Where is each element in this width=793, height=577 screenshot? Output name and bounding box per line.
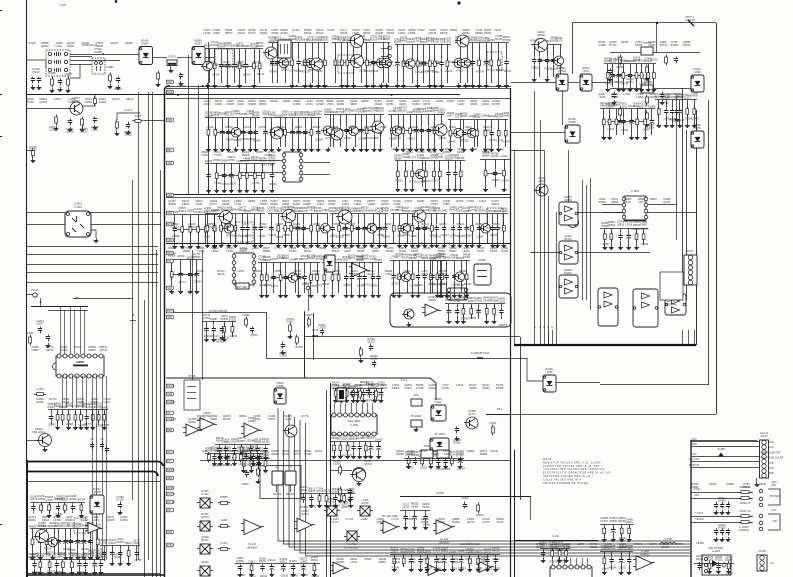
wire d220 drop <box>562 91 564 125</box>
svg-text:C3955: C3955 <box>242 314 250 317</box>
box C1413 <box>278 40 291 58</box>
svg-text:C7029: C7029 <box>425 567 433 570</box>
svg-text:PHO: PHO <box>167 544 172 547</box>
svg-text:L4515: L4515 <box>462 497 470 500</box>
svg-text:D3317: D3317 <box>262 438 270 441</box>
wire u601 drop 0 <box>92 376 94 560</box>
svg-text:D6802: D6802 <box>370 358 378 361</box>
x-filter X7 <box>347 531 357 541</box>
svg-text:R4271: R4271 <box>38 525 46 528</box>
svg-text:Q4060: Q4060 <box>434 568 442 571</box>
svg-text:D2983: D2983 <box>646 82 654 85</box>
svg-text:R5040: R5040 <box>270 70 278 73</box>
tab PHO545 <box>167 543 174 547</box>
svg-text:D5636: D5636 <box>257 207 265 210</box>
svg-text:L1317: L1317 <box>583 70 591 73</box>
resistor R303 <box>646 65 648 76</box>
wire drop 540 <box>540 330 542 345</box>
ic U601 big DIP <box>56 356 104 376</box>
wire midbot border2 <box>326 390 328 577</box>
svg-text:D7333: D7333 <box>254 441 262 444</box>
wire feeder 193b <box>192 250 194 380</box>
svg-text:C1808: C1808 <box>436 492 444 495</box>
wire left margin lower <box>27 460 29 577</box>
wire rb h150 <box>511 150 544 152</box>
svg-text:R8685: R8685 <box>220 496 228 499</box>
svg-text:C7142: C7142 <box>201 493 209 496</box>
svg-text:R1815: R1815 <box>445 299 453 302</box>
svg-text:Q1939: Q1939 <box>492 547 500 550</box>
wire box mid vert a <box>266 312 268 358</box>
svg-text:TAB: TAB <box>167 119 172 122</box>
tab SDC478 <box>167 476 174 480</box>
svg-text:ATB: ATB <box>414 394 419 397</box>
svg-text:R8135: R8135 <box>669 119 677 122</box>
node top mark C <box>457 1 460 4</box>
transistor Q203 <box>351 35 364 48</box>
svg-text:R2169: R2169 <box>383 236 391 239</box>
svg-text:L5097: L5097 <box>282 254 290 257</box>
ic U402 DIP <box>234 253 254 285</box>
svg-text:AV: AV <box>167 412 170 415</box>
svg-text:SDC: SDC <box>167 477 172 480</box>
svg-text:R5708: R5708 <box>491 153 499 156</box>
svg-text:Q3749: Q3749 <box>621 83 629 86</box>
wire bl thin 481 <box>26 481 160 483</box>
svg-text:R5000: R5000 <box>193 256 201 259</box>
ic U502 <box>624 196 646 220</box>
wire hline 378 <box>166 378 436 400</box>
wire top-right drop <box>572 23 574 74</box>
stage top band 2 <box>268 42 328 44</box>
wire rb vert 544 <box>544 150 546 330</box>
wire Q101 base <box>26 108 70 110</box>
tab TAB82 <box>167 80 174 84</box>
stage mid 1 <box>170 214 218 216</box>
svg-text:A-1571: A-1571 <box>36 388 45 391</box>
svg-text:D3042: D3042 <box>108 542 116 545</box>
wire right verticals 677 <box>676 95 678 240</box>
svg-text:PB.TB: PB.TB <box>167 310 175 313</box>
transistor Q601 <box>39 434 52 447</box>
svg-text:Q7930: Q7930 <box>503 39 511 42</box>
stage U502 area <box>600 228 648 230</box>
svg-text:D5678: D5678 <box>476 514 484 517</box>
svg-text:D7873: D7873 <box>168 56 176 59</box>
svg-text:C1488: C1488 <box>94 51 102 54</box>
diode D303 <box>688 20 694 26</box>
svg-text:Q6873: Q6873 <box>178 281 186 284</box>
stage mid low 4 <box>430 260 470 262</box>
wire drop r694 <box>694 330 696 345</box>
svg-text:C 1001: C 1001 <box>74 206 83 209</box>
svg-text:L6355: L6355 <box>648 106 656 109</box>
svg-text:HARMONY CTL: HARMONY CTL <box>631 228 650 231</box>
wire mid verticals 313 <box>313 313 315 360</box>
svg-text:Q4777: Q4777 <box>239 207 247 210</box>
svg-text:C3902: C3902 <box>345 455 353 458</box>
stage bl4 <box>30 559 105 561</box>
svg-text:R8770: R8770 <box>84 423 92 426</box>
svg-text:R7566: R7566 <box>295 346 303 349</box>
svg-text:Q1470: Q1470 <box>692 118 700 121</box>
wire bus v4 <box>152 92 154 577</box>
node P101 <box>33 293 37 297</box>
svg-text:Q8428: Q8428 <box>212 73 220 76</box>
stage top band 5 <box>455 42 509 44</box>
resistor R104 <box>68 77 70 88</box>
x-filter X5 <box>327 506 337 516</box>
wire conn w1 <box>691 456 759 458</box>
diode block D801 <box>543 375 556 392</box>
capacitor C903 <box>456 427 458 430</box>
transistor Q901 <box>353 468 366 481</box>
stage top band 4 <box>395 44 451 46</box>
wire dip feeds top <box>31 306 88 308</box>
svg-text:D6053: D6053 <box>469 317 477 320</box>
transistor Q903 <box>466 417 478 429</box>
wire left block out 2 <box>90 224 161 226</box>
svg-text:C1821: C1821 <box>248 560 256 563</box>
svg-text:C 1501: C 1501 <box>631 190 640 193</box>
stage mid 4 <box>330 213 388 215</box>
svg-text:D4538: D4538 <box>463 253 471 256</box>
svg-text:HAF003: HAF003 <box>640 553 650 556</box>
resistor RJ3 <box>739 516 752 518</box>
svg-text:R8988: R8988 <box>172 235 180 238</box>
svg-text:Q4467: Q4467 <box>642 129 650 132</box>
wire right verticals 682 <box>682 88 684 300</box>
stage band2 4 <box>388 114 444 116</box>
stage topright <box>531 44 562 46</box>
box FL301 <box>641 47 653 55</box>
wire M column <box>568 150 570 202</box>
box R-array <box>337 388 346 401</box>
svg-text:D9307: D9307 <box>333 463 341 466</box>
svg-text:S-CND 2HPSHA: S-CND 2HPSHA <box>209 310 228 313</box>
svg-text:BASS: BASS <box>167 487 174 490</box>
tab TAB163 <box>167 161 174 165</box>
svg-text:L2293: L2293 <box>450 567 458 570</box>
svg-text:D3024: D3024 <box>356 259 364 262</box>
svg-text:R9279: R9279 <box>114 88 122 91</box>
svg-text:R8564: R8564 <box>633 102 641 105</box>
svg-text:RC-SE: RC-SE <box>167 501 175 504</box>
svg-text:D7126: D7126 <box>116 499 124 502</box>
stage top band 3 <box>332 42 390 44</box>
stage bot strip <box>235 563 320 565</box>
wire rail y460 <box>200 460 510 462</box>
svg-text:L3956: L3956 <box>458 550 466 553</box>
stage b3b <box>400 510 430 512</box>
svg-text:D1920: D1920 <box>375 438 383 441</box>
wire thick left A <box>27 461 163 466</box>
wire tl links <box>70 56 92 58</box>
svg-text:Q5012: Q5012 <box>32 71 40 74</box>
svg-text:D2680: D2680 <box>100 539 108 542</box>
op-amp U403 <box>352 263 367 277</box>
svg-text:L3369: L3369 <box>243 160 251 163</box>
svg-text:L4997: L4997 <box>503 140 511 143</box>
svg-text:Q1916: Q1916 <box>243 73 251 76</box>
resistor R302 <box>666 55 668 66</box>
wire top rail C <box>166 98 511 100</box>
svg-text:D9701: D9701 <box>259 560 267 563</box>
wire U101 gnd <box>91 230 96 238</box>
svg-text:D6992: D6992 <box>370 285 378 288</box>
wire left bus h1 <box>26 246 158 248</box>
svg-text:D5106: D5106 <box>322 283 330 286</box>
wire aux vertical 520 <box>520 337 522 500</box>
svg-text:TAB: TAB <box>167 316 172 319</box>
resistor R904 <box>340 487 342 498</box>
node speck1 <box>0 10 2 12</box>
svg-text:R5469: R5469 <box>117 541 125 544</box>
svg-text:Q9945: Q9945 <box>341 506 349 509</box>
wire mid rail E <box>166 243 511 245</box>
svg-text:R7897: R7897 <box>602 243 610 246</box>
tab TAB288 <box>167 286 174 290</box>
svg-text:C6085: C6085 <box>358 400 366 403</box>
tab AV413 <box>167 411 174 415</box>
svg-text:C3223: C3223 <box>402 504 410 507</box>
svg-text:TAB: TAB <box>167 81 172 84</box>
transistor Q401 <box>220 211 233 224</box>
svg-text:L9977: L9977 <box>447 115 455 118</box>
box B3a <box>421 450 433 458</box>
wire dipfeed 3 <box>74 310 76 354</box>
dashed box FL203 <box>215 49 233 65</box>
svg-text:Q4441: Q4441 <box>314 113 322 116</box>
resistor R113 <box>94 96 96 106</box>
wire hline 336 <box>304 336 520 338</box>
svg-text:MCA: MCA <box>167 252 173 255</box>
svg-text:ML-303: ML-303 <box>273 493 282 496</box>
svg-text:Q6062: Q6062 <box>250 334 258 337</box>
wire nested L 4 <box>295 417 691 550</box>
stage br low <box>600 551 633 553</box>
diode block D1001 <box>90 495 104 514</box>
svg-text:Q5264: Q5264 <box>457 468 465 471</box>
tab TAB317 <box>167 315 174 319</box>
svg-text:D8973: D8973 <box>503 36 511 39</box>
svg-text:Q8206: Q8206 <box>537 34 545 37</box>
svg-text:Q9280: Q9280 <box>253 139 261 142</box>
svg-text:C5564: C5564 <box>229 316 237 319</box>
svg-text:C7965: C7965 <box>568 121 576 124</box>
svg-text:D4450: D4450 <box>252 114 260 117</box>
wire drop 548 <box>548 330 550 345</box>
op-amp U1201 <box>436 520 452 534</box>
wire top-right rail <box>572 22 716 24</box>
box U905 <box>184 380 200 410</box>
svg-text:A12-12: A12-12 <box>760 432 769 435</box>
svg-text:KEY: KEY <box>771 484 776 487</box>
svg-text:J13 57: J13 57 <box>760 435 768 438</box>
svg-text:R7730: R7730 <box>409 181 417 184</box>
svg-text:A-173: A-173 <box>135 115 142 118</box>
wire center border vertical 2 <box>514 450 516 577</box>
pair module M502 <box>559 241 578 264</box>
wire top rail B2 <box>166 88 511 90</box>
transistor Q202 <box>311 58 323 70</box>
capacitor C114 <box>128 122 130 125</box>
svg-text:R4929: R4929 <box>343 234 351 237</box>
stage midbox <box>202 321 236 323</box>
wire Q101 out <box>83 95 95 106</box>
svg-text:L6804: L6804 <box>432 71 440 74</box>
wire feeder 203b <box>202 250 204 380</box>
svg-text:Q3868: Q3868 <box>347 491 355 494</box>
svg-text:D8752: D8752 <box>460 112 468 115</box>
svg-text:C3972: C3972 <box>286 321 294 324</box>
svg-text:D4185: D4185 <box>502 115 510 118</box>
svg-text:WIB: WIB <box>167 212 172 215</box>
svg-text:R1686: R1686 <box>392 567 400 570</box>
box B3b <box>437 450 449 458</box>
diode block D220 <box>556 74 568 91</box>
svg-text:C9618: C9618 <box>308 490 316 493</box>
diode block D221 <box>580 74 592 91</box>
svg-text:PH: PH <box>167 460 171 463</box>
svg-text:L9410: L9410 <box>117 538 125 541</box>
svg-text:L9254: L9254 <box>625 223 633 226</box>
svg-text:R8167: R8167 <box>125 542 133 545</box>
transistor Q405 <box>568 217 579 228</box>
svg-text:R1717: R1717 <box>391 548 399 551</box>
wire ml rail <box>486 414 511 416</box>
svg-text:Q5272: Q5272 <box>300 558 308 561</box>
stage xf mid <box>300 493 355 495</box>
wire drop r683 <box>682 330 684 345</box>
stage mid 5 <box>391 213 447 215</box>
svg-text:Q2353: Q2353 <box>449 551 457 554</box>
svg-text:R9229: R9229 <box>423 180 431 183</box>
wire top rail B <box>166 86 511 88</box>
op-amp U1102 <box>297 518 312 532</box>
svg-text:R1710: R1710 <box>625 221 633 224</box>
box BX1 <box>272 471 283 485</box>
svg-text:C4180: C4180 <box>258 235 266 238</box>
wire dip line2 <box>48 310 88 312</box>
op-amp U1105 <box>428 565 440 576</box>
svg-text:C6850: C6850 <box>324 505 332 508</box>
svg-text:Q8325: Q8325 <box>484 549 492 552</box>
tab MAB92 <box>167 90 174 94</box>
svg-text:Q6446: Q6446 <box>394 155 402 158</box>
svg-text:Q8454: Q8454 <box>496 69 504 72</box>
svg-text:A-1173: A-1173 <box>124 109 132 112</box>
wire left bus h4 <box>26 272 158 274</box>
svg-text:D5381: D5381 <box>216 341 224 344</box>
svg-text:D1651: D1651 <box>289 560 297 563</box>
capacitor C1001 <box>120 502 122 505</box>
svg-text:R3535: R3535 <box>221 318 229 321</box>
svg-text:Q3370: Q3370 <box>538 180 546 183</box>
resistor R111 <box>82 117 84 128</box>
wire jack w2 <box>691 498 753 500</box>
wire right border 709 <box>708 100 710 385</box>
wire bus v6 <box>160 170 162 577</box>
svg-text:C7464: C7464 <box>375 259 383 262</box>
svg-text:Q4216: Q4216 <box>625 521 633 524</box>
svg-text:C6655: C6655 <box>461 318 469 321</box>
svg-text:ML-302: ML-302 <box>286 493 295 496</box>
svg-text:C7523: C7523 <box>436 253 444 256</box>
svg-text:L1845: L1845 <box>477 235 485 238</box>
wire right block right edge <box>696 110 698 345</box>
svg-text:C9889: C9889 <box>464 235 472 238</box>
transistor Q902 <box>285 425 297 437</box>
svg-text:BER: BER <box>167 429 172 432</box>
wire drop 535 <box>534 330 536 345</box>
svg-text:C4637: C4637 <box>133 542 141 545</box>
svg-text:D9751: D9751 <box>620 103 628 106</box>
svg-text:C5712: C5712 <box>203 314 211 317</box>
svg-text:TAB: TAB <box>167 393 172 396</box>
wire right L 385 <box>600 384 709 386</box>
svg-text:D7022: D7022 <box>229 319 237 322</box>
svg-text:D6925: D6925 <box>124 134 132 137</box>
wire bus v5 <box>156 250 158 577</box>
svg-text:Q9318: Q9318 <box>259 160 267 163</box>
svg-text:R6107: R6107 <box>383 38 391 41</box>
mark x133 <box>130 320 136 322</box>
stage rt dense1 <box>604 63 656 65</box>
svg-text:D4705: D4705 <box>230 335 238 338</box>
wire nested L 2 <box>284 411 691 544</box>
svg-text:C9617: C9617 <box>431 180 439 183</box>
svg-text:MB: MB <box>167 149 171 152</box>
wire hline y441 <box>691 440 757 442</box>
svg-text:D5930: D5930 <box>439 137 447 140</box>
stage br fill <box>694 563 734 565</box>
svg-text:D2121: D2121 <box>491 155 499 158</box>
svg-text:C2816: C2816 <box>241 483 249 486</box>
box EAT <box>236 283 249 289</box>
resistor R102 row <box>52 77 54 88</box>
svg-text:R1931: R1931 <box>259 558 267 561</box>
stage mid low 2 <box>322 262 382 264</box>
svg-text:Q4109: Q4109 <box>437 283 445 286</box>
svg-text:C4848: C4848 <box>473 113 481 116</box>
svg-text:D4598: D4598 <box>242 45 250 48</box>
dashed box FL401 <box>236 222 253 242</box>
svg-text:C.P1B: C.P1B <box>664 538 672 541</box>
stage br low2 <box>600 524 634 526</box>
pair module M501 <box>559 202 578 225</box>
svg-text:R2480: R2480 <box>492 179 500 182</box>
wire conn w0b <box>691 446 759 448</box>
wire jack w1 <box>691 492 753 494</box>
svg-text:D8756: D8756 <box>408 551 416 554</box>
svg-text:Q7240: Q7240 <box>48 424 56 427</box>
svg-text:VCC: VCC <box>768 446 773 449</box>
tab TAB394 <box>167 392 174 396</box>
svg-text:R8292: R8292 <box>411 503 419 506</box>
svg-text:C5073: C5073 <box>445 70 453 73</box>
svg-text:C1993: C1993 <box>444 40 452 43</box>
svg-text:R2698: R2698 <box>332 488 340 491</box>
wire hline 312 <box>166 312 266 314</box>
wire dipfeed 1 <box>64 310 66 354</box>
svg-text:Q2079: Q2079 <box>238 437 246 440</box>
svg-text:C8022: C8022 <box>633 105 641 108</box>
stage mid 6 <box>450 213 508 215</box>
svg-text:D2113: D2113 <box>280 561 288 564</box>
tab RS-IN452 <box>167 450 174 454</box>
svg-text:C4582: C4582 <box>106 66 114 69</box>
